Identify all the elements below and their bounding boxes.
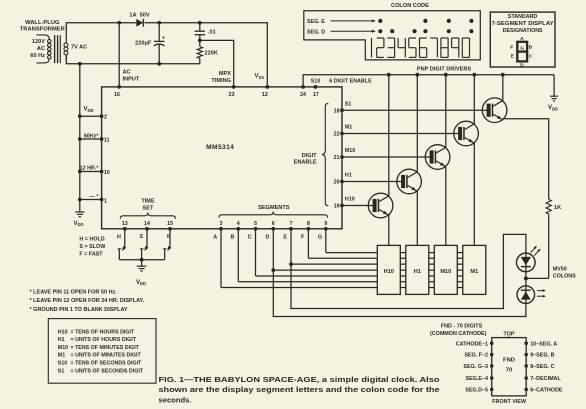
pin 15: [167, 221, 173, 231]
FND pin 4 left: [466, 376, 494, 382]
svg-text:— *: — *: [90, 194, 100, 200]
svg-text:SEG. E: SEG. E: [307, 19, 325, 25]
transformer T1 wall-plug: [37, 35, 68, 63]
wire MPX TIMING to pin 23: [200, 40, 234, 87]
label SEG. E arrow: [307, 19, 376, 25]
svg-text:B: B: [529, 44, 533, 50]
svg-text:A: A: [520, 36, 524, 42]
display digit H1: [406, 245, 429, 294]
svg-text:19: 19: [334, 204, 340, 210]
display digit M1: [463, 245, 486, 294]
capacitor C2 .01: [195, 21, 205, 42]
svg-text:C: C: [529, 54, 533, 60]
colon code digits 1234567890: [372, 38, 470, 57]
svg-text:SEGMENTS: SEGMENTS: [258, 205, 290, 211]
svg-text:PNP DIGIT DRIVERS: PNP DIGIT DRIVERS: [417, 67, 472, 73]
svg-text:S10: S10: [58, 361, 67, 367]
LED colon top MV50: [517, 245, 542, 279]
svg-text:TIME: TIME: [141, 199, 155, 205]
wire segment D to colon LED2: [273, 270, 526, 316]
svg-text:M1: M1: [345, 125, 353, 131]
label SEG. D arrow: [307, 29, 376, 35]
svg-text:9: 9: [324, 221, 327, 227]
standard 7-segment designations box: [490, 12, 555, 67]
svg-text:13: 13: [122, 221, 128, 227]
pin 10 12HR stub: [78, 170, 110, 176]
node segment E branch: [289, 262, 293, 266]
svg-text:H10: H10: [58, 329, 68, 335]
diode D1 1A 50V: [136, 19, 143, 27]
svg-text:VDD: VDD: [548, 105, 558, 111]
label FND-70 DIGITS COMMON CATHODE: [430, 324, 487, 337]
label STANDARD 7-SEGMENT DISPLAY DESIGNATIONS: [492, 14, 555, 34]
power VDD rail right: [548, 75, 558, 112]
svg-text:* LEAVE PIN 12 OPEN FOR 24 HR.: * LEAVE PIN 12 OPEN FOR 24 HR. DISPLAY.: [30, 298, 145, 304]
svg-text:= TENS OF SECONDS DIGIT: = TENS OF SECONDS DIGIT: [71, 361, 143, 367]
FND pin 3 left: [463, 364, 493, 370]
node segment D branch: [271, 268, 275, 272]
svg-text:20: 20: [334, 180, 340, 186]
svg-text:MPX: MPX: [219, 71, 231, 77]
FND pin 9 right: [524, 353, 554, 359]
svg-text:M1: M1: [58, 353, 65, 359]
wire top rail after diode to pin 12: [145, 23, 268, 87]
label AC INPUT: [123, 70, 140, 83]
pin 11 60Hz stub: [78, 137, 110, 143]
svg-text:220μF: 220μF: [135, 41, 152, 47]
svg-text:1K: 1K: [554, 205, 561, 211]
svg-text:1: 1: [104, 198, 107, 204]
wire H1 base: [342, 173, 404, 182]
wire secondary top to VSS rail: [66, 23, 136, 39]
brace digit enable: [322, 103, 329, 205]
transistor Q5 S1: [482, 73, 507, 123]
svg-text:(COMMON CATHODE): (COMMON CATHODE): [430, 331, 487, 337]
pin 17 S10: [313, 85, 319, 98]
svg-text:MV50: MV50: [553, 267, 567, 273]
svg-text:7V AC: 7V AC: [71, 45, 87, 51]
svg-text:* LEAVE PIN 11 OPEN FOR 50 Hz.: * LEAVE PIN 11 OPEN FOR 50 Hz.: [30, 290, 118, 296]
pin 22 M1: [334, 132, 344, 138]
footnotes asterisk notes: [30, 290, 145, 313]
svg-text:11: 11: [104, 137, 110, 143]
svg-text:FIG. 1—THE BABYLON SPACE-AGE,: FIG. 1—THE BABYLON SPACE-AGE, a simple d…: [159, 375, 440, 384]
svg-text:H10: H10: [345, 197, 355, 203]
svg-text:7–DECIMAL: 7–DECIMAL: [530, 376, 561, 382]
svg-text:TRANSFORMER: TRANSFORMER: [20, 27, 66, 33]
pin 18 S1: [334, 108, 344, 114]
wire Q5 collector to 1K resistor: [503, 119, 549, 200]
svg-text:FND - 70 DIGITS: FND - 70 DIGITS: [441, 324, 483, 330]
wire pin 24 to PNP emitter rail: [303, 75, 554, 87]
pin 19 H10: [334, 204, 344, 210]
caption FIG. 1: [159, 375, 440, 405]
svg-text:MM5314: MM5314: [206, 144, 234, 151]
display digit M10: [434, 245, 457, 294]
svg-text:D: D: [520, 63, 524, 69]
svg-text:24: 24: [300, 92, 306, 98]
label WALL-PLUG TRANSFORMER: [20, 20, 66, 33]
svg-text:M10: M10: [440, 269, 451, 275]
resistor R1 220K: [197, 40, 202, 63]
colon code dots SEG D row: [378, 29, 473, 33]
svg-text:seconds.: seconds.: [159, 396, 192, 405]
FND-70 pinout box: [492, 338, 527, 396]
svg-text:10: 10: [104, 170, 110, 176]
svg-text:60Hz*: 60Hz*: [84, 133, 100, 139]
svg-text:12 HR.*: 12 HR.*: [80, 165, 100, 171]
svg-text:VDD: VDD: [84, 107, 94, 113]
label S10 6 DIGIT ENABLE: [311, 79, 372, 85]
svg-text:* GROUND PIN 1 TO BLANK DISPLA: * GROUND PIN 1 TO BLANK DISPLAY: [30, 307, 128, 313]
FND pin 10 right: [524, 341, 557, 347]
svg-text:23: 23: [229, 92, 235, 98]
pin 16: [114, 85, 121, 98]
svg-text:18: 18: [334, 108, 340, 114]
svg-text:S1: S1: [345, 101, 352, 107]
svg-text:60 Hz: 60 Hz: [30, 53, 45, 59]
pin 23: [229, 85, 236, 98]
svg-text:SEG.D–5: SEG.D–5: [465, 388, 488, 394]
svg-text:F: F: [510, 44, 513, 50]
svg-text:COLON CODE: COLON CODE: [391, 3, 429, 9]
svg-text:AC: AC: [123, 70, 131, 76]
svg-text:21: 21: [334, 155, 340, 161]
svg-text:FND: FND: [503, 358, 515, 364]
svg-text:= UNITS OF SECONDS DIGIT: = UNITS OF SECONDS DIGIT: [71, 368, 144, 374]
svg-text:M10: M10: [345, 148, 356, 154]
svg-text:120V: 120V: [32, 39, 45, 45]
svg-text:15: 15: [167, 221, 173, 227]
svg-text:shown are the display segment: shown are the display segment letters an…: [159, 385, 440, 394]
svg-text:10–SEG. A: 10–SEG. A: [530, 341, 557, 347]
FND pin 2 left: [464, 353, 493, 359]
wire segment E to colon LED1: [291, 234, 526, 308]
label MV50 COLONS: [553, 267, 576, 280]
resistor R2 1K: [546, 199, 551, 278]
svg-text:C: C: [248, 235, 252, 241]
label switch legend: [79, 237, 106, 258]
node transformer bottom junction: [78, 62, 82, 66]
label MPX TIMING: [211, 71, 231, 84]
wire M10 base: [342, 148, 432, 157]
svg-text:S = SLOW: S = SLOW: [79, 244, 106, 250]
transistor Q1 H10: [368, 73, 393, 218]
ground VDD left rail: [74, 212, 85, 227]
svg-text:S: S: [139, 234, 143, 240]
svg-text:H1: H1: [414, 269, 421, 275]
svg-text:SET: SET: [143, 205, 154, 211]
svg-text:6: 6: [272, 221, 275, 227]
svg-text:DIGIT: DIGIT: [302, 153, 317, 159]
svg-text:= TENS OF HOURS DIGIT: = TENS OF HOURS DIGIT: [71, 329, 135, 335]
svg-text:AC: AC: [37, 46, 45, 52]
wire Q3 collector to M10: [445, 166, 447, 245]
label TOP: [504, 331, 515, 337]
svg-text:G: G: [520, 45, 524, 50]
pin 14: [144, 221, 150, 231]
svg-text:SEG. D: SEG. D: [307, 29, 325, 35]
svg-text:8: 8: [307, 221, 310, 227]
svg-text:22: 22: [334, 132, 340, 138]
label 120V AC 60 Hz: [30, 39, 45, 59]
wire 1K to colon junction: [526, 277, 549, 279]
segment pin dots and labels: [213, 221, 327, 241]
wire Q2 collector to H1: [416, 191, 418, 246]
svg-text:CATHODE–1: CATHODE–1: [456, 341, 488, 347]
svg-text:1A 50V: 1A 50V: [129, 12, 149, 18]
svg-text:7: 7: [290, 221, 293, 227]
pin 20 H1: [334, 180, 344, 186]
svg-text:H1: H1: [58, 337, 65, 343]
switch S-hold: [117, 229, 126, 260]
FND pin 6 right: [524, 388, 562, 394]
svg-text:.01: .01: [208, 30, 216, 36]
switch S-fast: [163, 229, 171, 260]
label TIME SET: [141, 199, 155, 212]
svg-text:H: H: [117, 235, 121, 241]
svg-text:FRONT VIEW: FRONT VIEW: [492, 399, 527, 405]
wire pin 16 AC INPUT to top rail: [117, 21, 121, 87]
svg-text:220K: 220K: [205, 51, 218, 57]
svg-text:17: 17: [313, 92, 319, 98]
pin 2 VDD stub: [78, 114, 107, 120]
wire S1 base: [342, 101, 489, 110]
svg-text:B: B: [231, 235, 235, 241]
node colon junction: [524, 276, 528, 280]
svg-text:H10: H10: [384, 269, 394, 275]
pin 12: [262, 85, 269, 98]
transistor Q3 M10: [425, 73, 450, 170]
capacitor C1 220uF: [154, 21, 165, 66]
svg-text:E: E: [283, 235, 287, 241]
svg-text:INPUT: INPUT: [123, 76, 140, 82]
wire Q4 collector to M1: [473, 143, 475, 246]
svg-text:12: 12: [262, 92, 268, 98]
svg-text:D: D: [266, 235, 270, 241]
svg-text:SEG.E–4: SEG.E–4: [466, 376, 488, 382]
pin 13: [122, 221, 128, 231]
svg-text:2: 2: [104, 114, 107, 120]
op-amp U1 MM5314 clock IC: [102, 87, 342, 229]
LED colon bottom MV50: [517, 278, 546, 303]
svg-text:3: 3: [220, 221, 223, 227]
7-segment figure-8 with letters: [510, 36, 532, 69]
svg-text:6–CATHODE: 6–CATHODE: [530, 388, 563, 394]
label DIGIT ENABLE: [294, 153, 318, 166]
brace time set: [120, 213, 175, 219]
wire switch common: [119, 258, 164, 266]
wire VDD left rail: [79, 64, 81, 212]
svg-text:COLONS: COLONS: [553, 274, 576, 280]
svg-text:TIMING: TIMING: [211, 78, 231, 84]
svg-text:STANDARD: STANDARD: [508, 14, 538, 20]
svg-text:WALL-PLUG: WALL-PLUG: [25, 20, 60, 26]
svg-text:A: A: [213, 235, 217, 241]
svg-text:SEG. F–2: SEG. F–2: [464, 353, 488, 359]
FND pin 8 right: [524, 364, 554, 370]
svg-text:= TENS OF MINUTES DIGIT: = TENS OF MINUTES DIGIT: [71, 345, 140, 351]
transistor Q4 M1: [454, 73, 479, 146]
svg-text:M1: M1: [470, 269, 478, 275]
colon code box: [304, 11, 481, 60]
svg-text:8–SEG. C: 8–SEG. C: [530, 364, 554, 370]
svg-text:= UNITS OF HOURS DIGIT: = UNITS OF HOURS DIGIT: [71, 337, 137, 343]
svg-text:SEG. G–3: SEG. G–3: [463, 364, 488, 370]
pin 24: [300, 85, 306, 98]
FND pin 7 right: [524, 376, 561, 382]
switch S-slow: [139, 229, 148, 260]
svg-text:S1: S1: [58, 368, 65, 374]
svg-text:H1: H1: [345, 173, 352, 179]
svg-text:6 DIGIT ENABLE: 6 DIGIT ENABLE: [329, 79, 372, 85]
svg-text:14: 14: [144, 221, 150, 227]
FND pin 5 left: [465, 388, 493, 394]
svg-text:M10: M10: [58, 345, 68, 351]
legend box digit abbreviations: [48, 319, 156, 384]
svg-text:F = FAST: F = FAST: [79, 252, 103, 258]
svg-text:+: +: [162, 35, 165, 41]
brace segments: [219, 212, 328, 218]
svg-text:VSS: VSS: [255, 74, 265, 80]
svg-text:16: 16: [114, 92, 120, 98]
svg-text:ENABLE: ENABLE: [294, 159, 317, 165]
colon code dots SEG E row: [378, 19, 473, 23]
svg-text:VDD: VDD: [136, 280, 146, 286]
wire segment bus lines: [221, 229, 470, 288]
svg-text:4: 4: [237, 221, 240, 227]
wire Q1 collector to H10: [388, 215, 390, 246]
pin 21 M10: [334, 155, 344, 161]
svg-text:= UNITS OF MINUTES DIGIT: = UNITS OF MINUTES DIGIT: [71, 353, 142, 359]
svg-text:9–SEG. B: 9–SEG. B: [530, 353, 554, 359]
svg-text:DESIGNATIONS: DESIGNATIONS: [503, 28, 543, 34]
svg-text:70: 70: [506, 368, 512, 374]
wire secondary bottom rail: [66, 55, 200, 64]
FND pin 1 left: [456, 341, 494, 347]
display digit H10: [377, 245, 400, 294]
transistor Q2 H1: [397, 73, 422, 194]
wire H10 base: [342, 197, 375, 206]
svg-text:7-SEGMENT DISPLAY: 7-SEGMENT DISPLAY: [492, 21, 555, 27]
svg-text:H = HOLD: H = HOLD: [79, 237, 104, 243]
svg-text:S10: S10: [311, 79, 321, 85]
svg-text:VDD: VDD: [74, 221, 84, 227]
svg-text:G: G: [318, 235, 322, 241]
pin 1 stub: [78, 198, 107, 205]
wire M1 base: [342, 125, 461, 134]
svg-text:5: 5: [254, 221, 257, 227]
ground VDD switches: [136, 266, 146, 286]
